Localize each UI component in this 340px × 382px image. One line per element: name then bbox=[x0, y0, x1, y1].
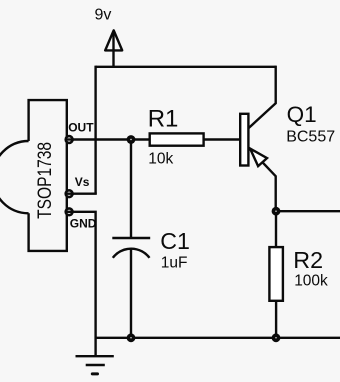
svg-text:TSOP1738: TSOP1738 bbox=[34, 142, 56, 219]
pin Vs circle bbox=[66, 190, 73, 197]
wire emitter to top rail bbox=[248, 66, 275, 129]
wire 9V vertical to Vs bbox=[94, 66, 96, 194]
IR receiver TSOP1738 body bbox=[0, 100, 67, 251]
wire collector down bbox=[248, 148, 275, 212]
svg-text:GND: GND bbox=[70, 217, 97, 231]
svg-text:100k: 100k bbox=[294, 273, 328, 290]
power symbol 9v arrow bbox=[105, 30, 122, 66]
svg-text:R1: R1 bbox=[148, 105, 179, 132]
wire bottom rail bbox=[96, 337, 340, 339]
wire output right bbox=[276, 210, 340, 212]
capacitor C1 bbox=[112, 238, 150, 258]
transistor Q1 base bar bbox=[240, 114, 248, 166]
pin GND circle bbox=[66, 208, 73, 215]
svg-text:BC557: BC557 bbox=[286, 129, 335, 146]
svg-text:1uF: 1uF bbox=[161, 255, 188, 272]
junction OUT/C1 bbox=[127, 135, 136, 144]
svg-text:10k: 10k bbox=[148, 151, 173, 168]
resistor R1 body bbox=[150, 133, 204, 145]
junction R2/ground rail bbox=[272, 333, 281, 342]
svg-text:R2: R2 bbox=[293, 247, 323, 273]
junction C1/ground rail bbox=[127, 333, 136, 342]
wire top rail bbox=[96, 66, 276, 68]
wire GND pin corner bbox=[69, 211, 96, 357]
wire Vs pin to rail bbox=[69, 192, 97, 194]
wire C1 top bbox=[130, 140, 132, 239]
svg-text:C1: C1 bbox=[160, 228, 190, 254]
wire stubs over pin circles bbox=[66, 140, 74, 212]
svg-text:Vs: Vs bbox=[75, 175, 90, 189]
svg-text:OUT: OUT bbox=[68, 121, 94, 135]
svg-text:Q1: Q1 bbox=[287, 102, 317, 127]
junction collector/output bbox=[272, 207, 281, 216]
wire R2 bottom bbox=[275, 301, 277, 338]
resistor R2 body bbox=[269, 247, 283, 301]
wire C1 bottom bbox=[130, 249, 132, 338]
node 9V supply label bbox=[95, 7, 112, 24]
wire R2 top bbox=[275, 211, 277, 247]
wire OUT pin to transistor base bbox=[69, 138, 240, 140]
transistor Q1 emitter arrow bbox=[250, 149, 267, 167]
svg-text:9v: 9v bbox=[95, 7, 112, 24]
pin OUT circle bbox=[66, 136, 73, 143]
ground symbol bbox=[76, 356, 114, 374]
